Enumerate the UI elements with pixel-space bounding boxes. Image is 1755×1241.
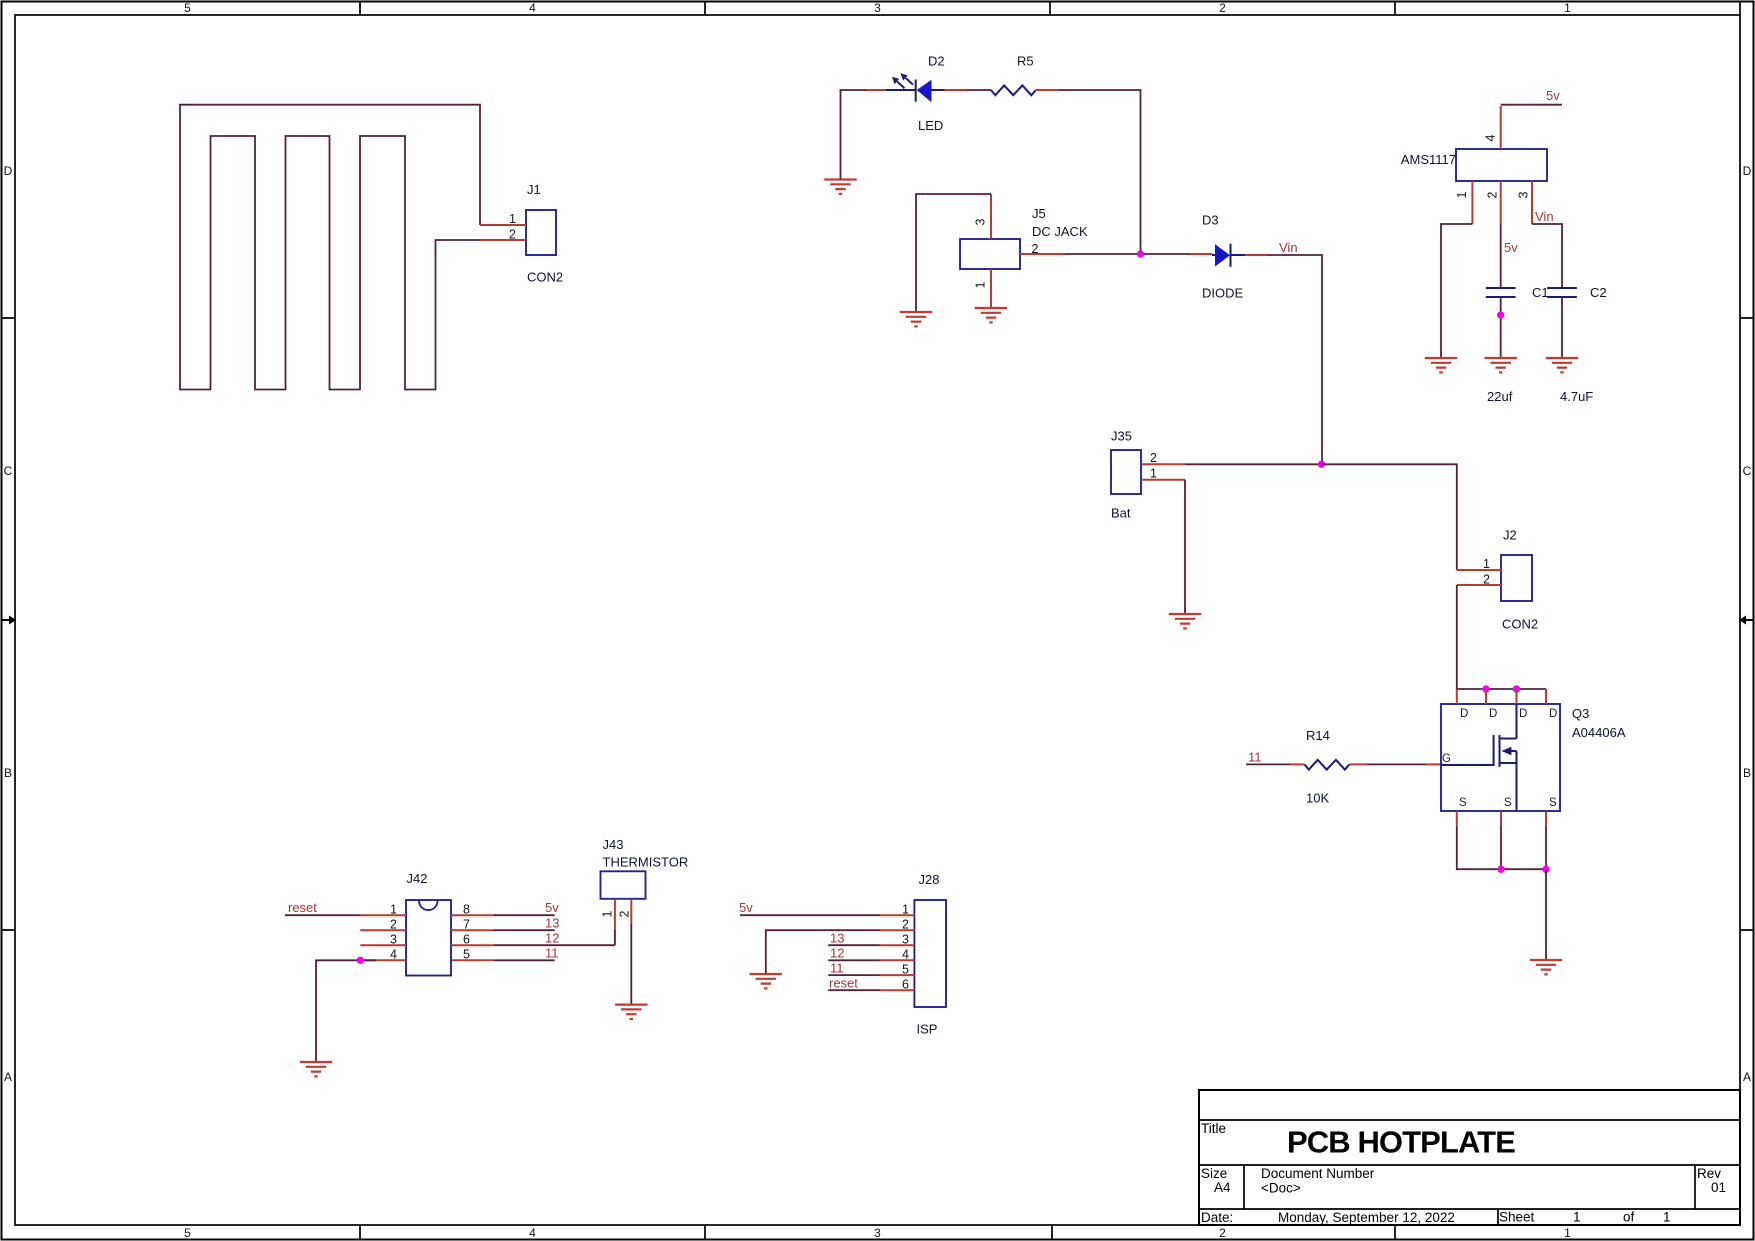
- svg-text:THERMISTOR: THERMISTOR: [603, 855, 689, 870]
- svg-text:7: 7: [463, 918, 470, 932]
- svg-text:4: 4: [390, 948, 397, 962]
- Q3 mosfet symbol: [1441, 704, 1517, 811]
- svg-text:A: A: [4, 1070, 12, 1084]
- svg-text:6: 6: [902, 978, 909, 992]
- ground (AMS1117 pin1): [1425, 358, 1457, 372]
- J2 pin 1: [1457, 569, 1501, 571]
- wire J43 pin1 down to pin6 net: [614, 930, 616, 945]
- J42 pin 2: [360, 929, 406, 931]
- svg-text:LED: LED: [918, 118, 943, 133]
- svg-text:1: 1: [1564, 1, 1571, 15]
- svg-text:12: 12: [830, 946, 844, 961]
- svg-text:R5: R5: [1017, 54, 1034, 69]
- wire J2 pin2 to Q3 drains: [1457, 585, 1546, 689]
- svg-text:5v: 5v: [1546, 88, 1560, 103]
- connector J35: [1111, 429, 1185, 521]
- svg-text:C: C: [1743, 464, 1752, 478]
- title block texts: [1201, 1121, 1726, 1225]
- svg-text:3: 3: [1516, 191, 1530, 198]
- J28 pin 3: [880, 944, 915, 946]
- LED arrow 1: [892, 77, 905, 88]
- svg-text:4: 4: [902, 948, 909, 962]
- svg-text:8: 8: [463, 903, 470, 917]
- svg-text:C: C: [4, 464, 13, 478]
- svg-text:5v: 5v: [545, 900, 559, 915]
- J28 pin 5: [880, 974, 915, 976]
- svg-text:2: 2: [1483, 573, 1490, 587]
- wire J43 pin2 to ground: [630, 924, 632, 1005]
- wire J42 pin7 (13): [494, 929, 555, 931]
- svg-text:1: 1: [1573, 1210, 1581, 1225]
- svg-text:12: 12: [545, 931, 559, 946]
- wire R5 to junction: [1036, 90, 1141, 254]
- border right mid arrow: [1739, 616, 1754, 625]
- J28 pin 4: [880, 959, 915, 961]
- border left mid arrow: [2, 616, 17, 625]
- ground (LED cathode net): [824, 180, 856, 194]
- svg-text:Document Number: Document Number: [1261, 1166, 1375, 1181]
- LED triangle: [917, 80, 932, 103]
- svg-text:J43: J43: [603, 837, 624, 852]
- diode D3: [1202, 213, 1245, 301]
- svg-text:3: 3: [973, 218, 987, 225]
- svg-text:2: 2: [1485, 191, 1499, 198]
- wire J5 pin3 net to ground: [916, 194, 991, 312]
- junction node (S2 rail): [1497, 866, 1504, 873]
- svg-text:D3: D3: [1202, 213, 1219, 228]
- wire pin3 to C2: [1532, 224, 1562, 288]
- wire J42 pin8 (5v): [494, 914, 555, 916]
- connector J1: [480, 182, 563, 285]
- svg-text:D: D: [1489, 708, 1497, 720]
- wire pin1 to ground: [1441, 224, 1472, 358]
- J5 pin 3: [990, 194, 992, 239]
- svg-text:4: 4: [529, 1226, 536, 1240]
- junction node (D3 pin): [1513, 685, 1520, 692]
- svg-text:22uf: 22uf: [1487, 389, 1513, 404]
- svg-text:2: 2: [1032, 242, 1039, 256]
- svg-text:3: 3: [902, 933, 909, 947]
- svg-text:5v: 5v: [739, 900, 753, 915]
- svg-text:C1: C1: [1532, 285, 1549, 300]
- wire S rail to ground: [1545, 869, 1547, 960]
- svg-text:of: of: [1623, 1210, 1635, 1225]
- J42 pin 7: [451, 929, 494, 931]
- svg-text:CON2: CON2: [527, 270, 563, 285]
- wire J5 pin2 to diode: [1065, 253, 1212, 255]
- wire D3 to Vin corner: [1245, 255, 1322, 464]
- connector J5 DC JACK: [960, 194, 1088, 308]
- LED D2: [866, 54, 945, 134]
- junction node (J42 pin4): [357, 957, 364, 964]
- wire reset to J42 pin1: [285, 914, 360, 916]
- connector J43 THERMISTOR: [600, 837, 688, 931]
- wire 11 to R14: [1246, 763, 1305, 765]
- svg-text:J28: J28: [919, 872, 940, 887]
- resistor R14: [1305, 728, 1350, 806]
- border right ticks: [1740, 318, 1754, 930]
- svg-text:1: 1: [973, 281, 987, 288]
- transistor Q3 A04406A: [1441, 689, 1626, 826]
- wire C1 to ground: [1500, 297, 1502, 358]
- svg-text:13: 13: [830, 931, 844, 946]
- wire R14 to Q3 gate: [1349, 763, 1441, 765]
- connector J42: [360, 871, 494, 976]
- Q3 D pin stubs: [1457, 689, 1546, 704]
- svg-text:A04406A: A04406A: [1572, 725, 1626, 740]
- wire 5v to J28 pin1: [740, 914, 880, 916]
- svg-text:D: D: [1519, 708, 1527, 720]
- title block frame: [1199, 1090, 1740, 1225]
- connector J28 ISP: [880, 872, 947, 1037]
- svg-text:Sheet: Sheet: [1499, 1210, 1535, 1225]
- svg-text:4: 4: [1483, 134, 1497, 141]
- wire J28 pin2 to ground: [766, 930, 880, 974]
- border zone numbers top: [184, 1, 1571, 15]
- wire C2 to ground: [1561, 297, 1563, 358]
- svg-text:B: B: [4, 766, 12, 780]
- svg-text:5: 5: [184, 1, 191, 15]
- wire J28 pin5 (11): [828, 974, 879, 976]
- svg-text:A: A: [1743, 1070, 1751, 1084]
- border top ticks: [360, 2, 1740, 16]
- J5 pin 2: [1020, 253, 1065, 255]
- svg-text:1: 1: [600, 910, 614, 917]
- wire J42 pin6 to J43 pin1: [494, 944, 615, 946]
- svg-text:ISP: ISP: [917, 1022, 938, 1037]
- svg-text:2: 2: [509, 228, 516, 242]
- svg-text:5: 5: [902, 962, 909, 976]
- svg-text:PCB HOTPLATE: PCB HOTPLATE: [1287, 1125, 1515, 1160]
- J28 pin 1: [880, 914, 915, 916]
- ground (Q3 source): [1530, 960, 1562, 974]
- svg-text:J35: J35: [1111, 429, 1132, 444]
- ground (J43 pin2): [615, 1005, 647, 1019]
- svg-text:3: 3: [874, 1, 881, 15]
- border zone numbers bottom: [184, 1226, 1571, 1240]
- svg-text:5v: 5v: [1504, 240, 1518, 255]
- svg-text:B: B: [1743, 766, 1751, 780]
- ground (J28 pin2): [750, 974, 782, 988]
- svg-text:D: D: [1460, 708, 1468, 720]
- svg-text:S: S: [1504, 797, 1512, 809]
- svg-text:D: D: [1549, 708, 1557, 720]
- svg-text:2: 2: [390, 918, 397, 932]
- resistor R5: [991, 54, 1036, 96]
- svg-text:3: 3: [874, 1226, 881, 1240]
- svg-text:1: 1: [1150, 467, 1157, 481]
- svg-text:D: D: [4, 164, 13, 178]
- svg-text:1: 1: [1455, 191, 1469, 198]
- svg-text:2: 2: [1219, 1226, 1226, 1240]
- svg-text:4: 4: [529, 1, 536, 15]
- J42 pin 4: [360, 959, 406, 961]
- svg-text:1: 1: [390, 903, 397, 917]
- svg-text:D2: D2: [928, 54, 945, 69]
- ground (J35 pin1): [1169, 614, 1201, 628]
- svg-text:DIODE: DIODE: [1202, 286, 1244, 301]
- junction node (J5/R5/D3): [1137, 250, 1144, 257]
- wire Q3 sources rail: [1457, 826, 1546, 869]
- J35 pin 2: [1141, 463, 1185, 465]
- J42 pin 5: [451, 959, 494, 961]
- svg-text:2: 2: [1150, 451, 1157, 465]
- wire junction to J2 pin1: [1322, 464, 1457, 570]
- border left ticks: [2, 318, 16, 930]
- AMS1117 pin 1: [1471, 181, 1473, 224]
- Q3 mosfet arrow: [1502, 747, 1512, 756]
- svg-text:D: D: [1743, 164, 1752, 178]
- wire LED cathode to ground: [841, 90, 867, 180]
- connector J2: [1457, 528, 1538, 632]
- svg-text:01: 01: [1711, 1180, 1726, 1195]
- svg-text:10K: 10K: [1306, 791, 1329, 806]
- ground (C2): [1546, 358, 1578, 372]
- svg-text:reset: reset: [288, 900, 317, 915]
- svg-text:C2: C2: [1590, 285, 1607, 300]
- J28 pin 2: [880, 929, 915, 931]
- svg-text:CON2: CON2: [1502, 617, 1538, 632]
- svg-text:J2: J2: [1503, 528, 1517, 543]
- svg-text:R14: R14: [1306, 728, 1330, 743]
- svg-text:Size: Size: [1201, 1166, 1227, 1181]
- svg-text:11: 11: [1248, 750, 1262, 765]
- svg-text:A4: A4: [1214, 1180, 1231, 1195]
- svg-text:2: 2: [1219, 1, 1226, 15]
- J43 pin 2: [630, 899, 632, 925]
- svg-text:1: 1: [1564, 1226, 1571, 1240]
- J1 pin 2: [480, 239, 526, 241]
- capacitor C2: [1547, 285, 1607, 404]
- svg-text:2: 2: [617, 910, 631, 917]
- svg-text:1: 1: [509, 212, 516, 226]
- J28 pin 6: [880, 989, 915, 991]
- wire pin2 to C1: [1500, 224, 1502, 288]
- svg-text:Q3: Q3: [1572, 706, 1589, 721]
- wire J28 pin4 (12): [828, 959, 879, 961]
- wire J35 pin1 to ground: [1184, 480, 1186, 614]
- J43 pin 1: [614, 899, 616, 931]
- svg-text:J42: J42: [407, 871, 428, 886]
- svg-text:S: S: [1549, 797, 1557, 809]
- J35 pin 1: [1141, 479, 1185, 481]
- svg-text:5: 5: [463, 948, 470, 962]
- J42 pin 3: [360, 944, 406, 946]
- svg-text:AMS1117: AMS1117: [1401, 152, 1456, 167]
- J5 pin 1: [990, 269, 992, 308]
- J42 pin 1: [360, 914, 406, 916]
- svg-text:DC JACK: DC JACK: [1032, 224, 1088, 239]
- Q3 S pin stubs: [1457, 811, 1546, 826]
- J42 pin 8: [451, 914, 494, 916]
- svg-text:J1: J1: [527, 182, 541, 197]
- svg-text:Rev: Rev: [1697, 1166, 1721, 1181]
- svg-text:6: 6: [463, 933, 470, 947]
- heater serpentine trace (net to J1): [180, 105, 481, 390]
- border zone letters right: [1743, 164, 1752, 1084]
- border zone letters left: [4, 164, 13, 1084]
- svg-text:5: 5: [184, 1226, 191, 1240]
- svg-text:3: 3: [390, 933, 397, 947]
- J1 pin 1: [480, 224, 526, 226]
- ground (J42 pin4): [300, 1062, 332, 1076]
- ground (J5 pin1): [975, 308, 1007, 322]
- wire J42 pin4 to ground: [316, 960, 376, 1062]
- svg-text:S: S: [1459, 797, 1467, 809]
- regulator U AMS1117: [1401, 106, 1547, 224]
- svg-text:1: 1: [1663, 1210, 1671, 1225]
- capacitor C1: [1486, 285, 1549, 404]
- svg-text:Title: Title: [1201, 1121, 1226, 1136]
- junction node (D2 pin): [1482, 685, 1489, 692]
- svg-text:11: 11: [545, 946, 559, 961]
- svg-text:Vin: Vin: [1535, 209, 1554, 224]
- border bottom ticks: [360, 1225, 1395, 1240]
- svg-text:2: 2: [902, 918, 909, 932]
- ground (C1): [1485, 358, 1517, 372]
- junction node (C1 bottom): [1497, 311, 1504, 318]
- svg-text:1: 1: [1483, 557, 1490, 571]
- AMS1117 pin 4: [1500, 106, 1502, 149]
- svg-text:11: 11: [830, 960, 844, 975]
- junction node (Vin/J35/J2): [1318, 461, 1325, 468]
- wire J35 pin2 to junction: [1185, 463, 1321, 465]
- svg-text:1: 1: [902, 903, 909, 917]
- svg-text:J5: J5: [1032, 206, 1046, 221]
- svg-text:G: G: [1442, 753, 1451, 765]
- svg-text:Vin: Vin: [1279, 240, 1298, 255]
- wire J28 pin6 (reset): [828, 989, 879, 991]
- J42 pin 6: [451, 944, 494, 946]
- svg-text:Date:: Date:: [1201, 1210, 1233, 1225]
- J2 pin 2: [1457, 584, 1501, 586]
- wire J28 pin3 (13): [828, 944, 879, 946]
- svg-text:<Doc>: <Doc>: [1261, 1181, 1301, 1196]
- svg-text:Bat: Bat: [1111, 506, 1131, 521]
- svg-text:reset: reset: [829, 976, 858, 991]
- AMS1117 pin 3: [1531, 181, 1533, 224]
- wire J42 pin5 (11): [494, 959, 555, 961]
- ground (J5 pin3 net): [900, 312, 932, 326]
- AMS1117 pin 2: [1500, 181, 1502, 224]
- wire LED to R5: [945, 89, 992, 91]
- svg-text:13: 13: [545, 916, 559, 931]
- junction node (S3 rail): [1542, 866, 1549, 873]
- LED arrow 2: [900, 73, 913, 84]
- wire pin4 to 5v: [1501, 104, 1562, 106]
- svg-text:4.7uF: 4.7uF: [1560, 389, 1593, 404]
- svg-text:Monday, September 12, 2022: Monday, September 12, 2022: [1278, 1210, 1455, 1225]
